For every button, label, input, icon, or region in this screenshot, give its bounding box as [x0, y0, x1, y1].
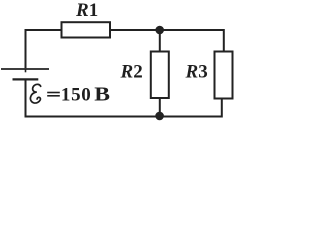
resistor R1: [62, 22, 111, 37]
wire top rail: [26, 30, 224, 68]
svg-text:В: В: [94, 82, 110, 105]
svg-text:R1: R1: [75, 0, 98, 21]
wire R2 top drop: [159, 30, 161, 52]
wire stub below long plate: [25, 69, 27, 72]
svg-text:R2: R2: [120, 61, 143, 82]
equals sign: [47, 93, 60, 96]
wire bottom rail: [26, 79, 222, 116]
wire R2 bottom drop: [159, 98, 161, 117]
battery cell E: short plate: [13, 78, 39, 80]
label EMF script E: [29, 84, 42, 103]
svg-text:R3: R3: [185, 62, 208, 83]
battery cell E: long plate: [1, 68, 49, 70]
svg-text:150: 150: [61, 85, 92, 106]
node B (bottom junction): [155, 112, 164, 121]
resistor R3: [215, 52, 233, 99]
node A (top junction): [155, 26, 164, 35]
resistor R2: [151, 52, 169, 99]
